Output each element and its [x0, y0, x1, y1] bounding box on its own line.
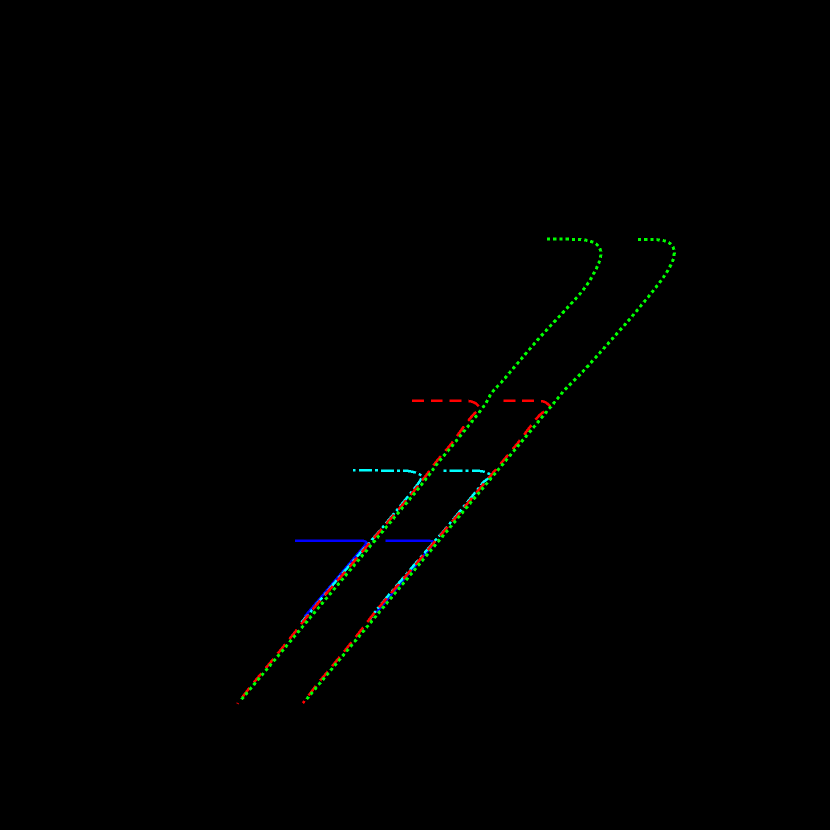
cyan dash-dot isochrone, left track [302, 470, 422, 622]
cyan dash-dot isochrone, right track [370, 471, 491, 620]
blue solid isochrone, right track [377, 541, 434, 613]
blue solid isochrone, left track [295, 541, 366, 617]
red dashed isochrone, right track [303, 401, 550, 703]
red dashed isochrone, left track [237, 401, 479, 704]
green dotted isochrone, right track [306, 239, 675, 700]
green dotted isochrone, left track [241, 239, 601, 700]
